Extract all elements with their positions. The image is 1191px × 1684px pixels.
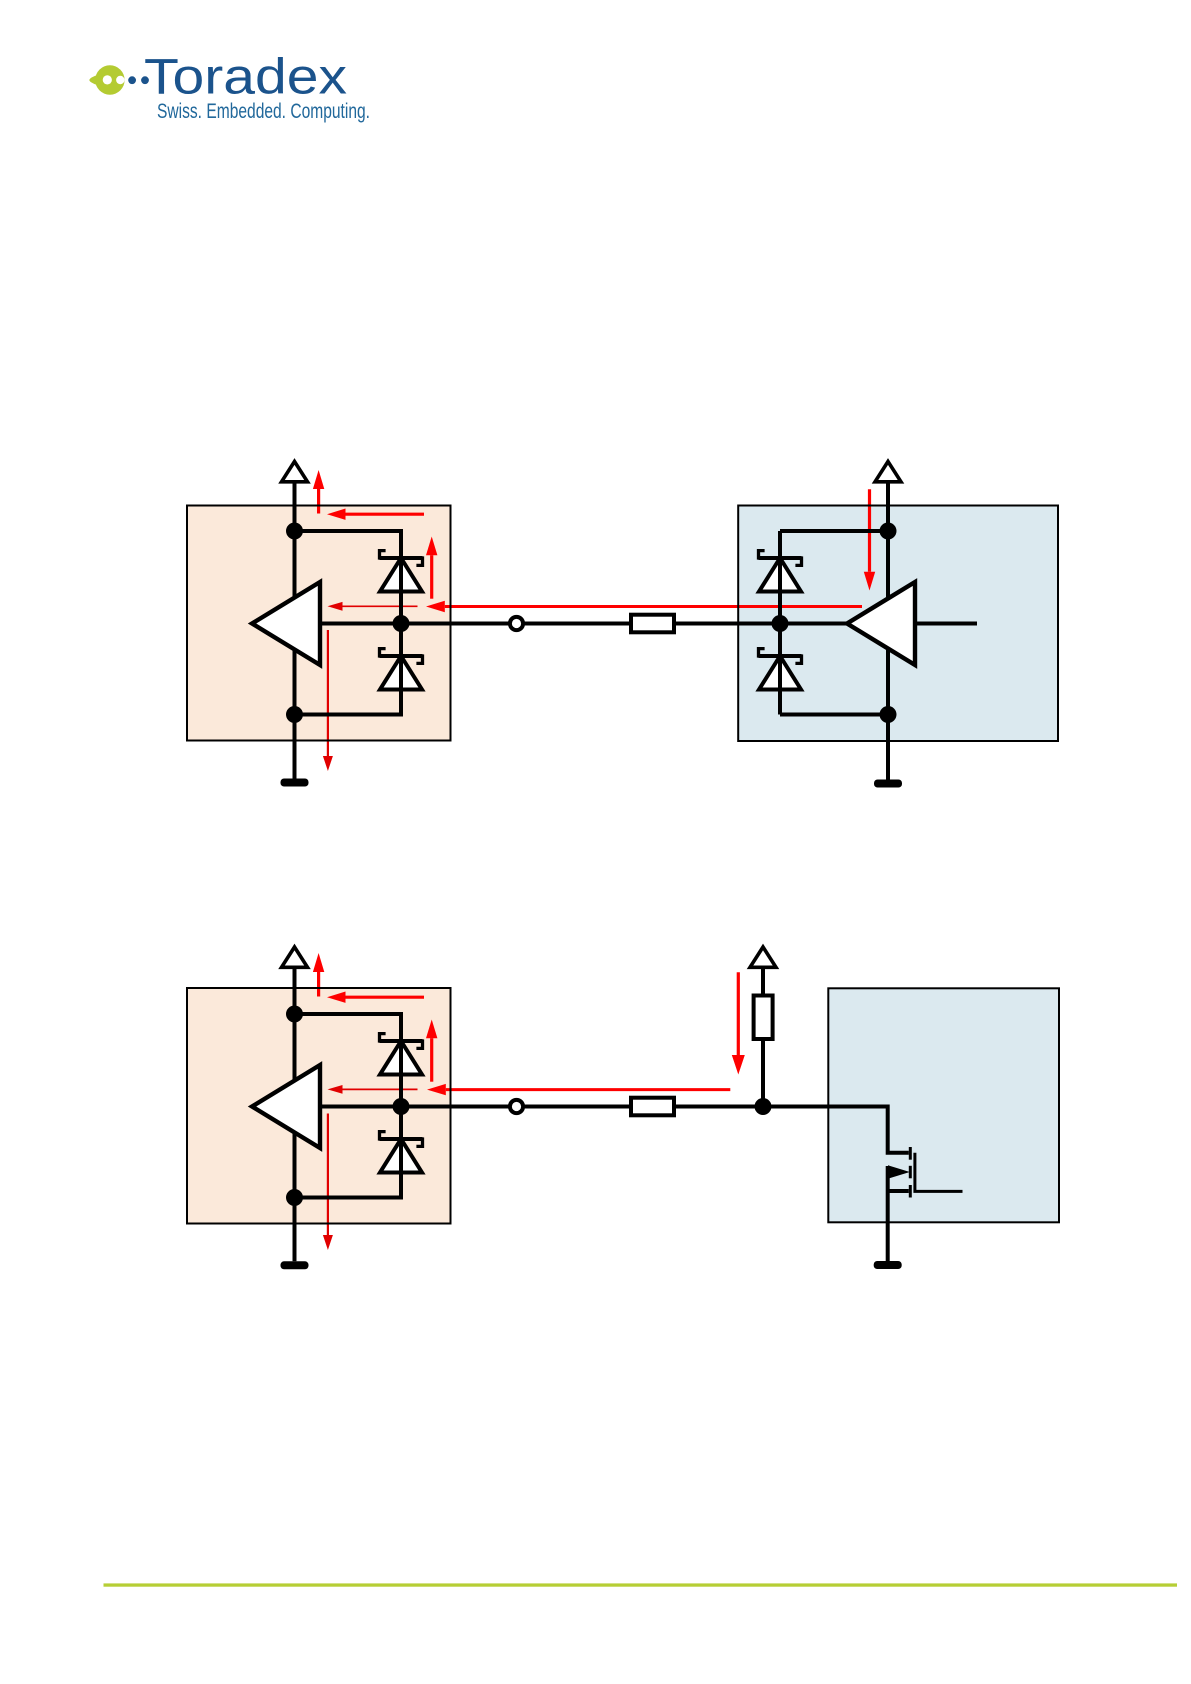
svg-text:Swiss. Embedded. Computing.: Swiss. Embedded. Computing. [157, 100, 370, 123]
svg-text:Toradex: Toradex [144, 49, 347, 105]
